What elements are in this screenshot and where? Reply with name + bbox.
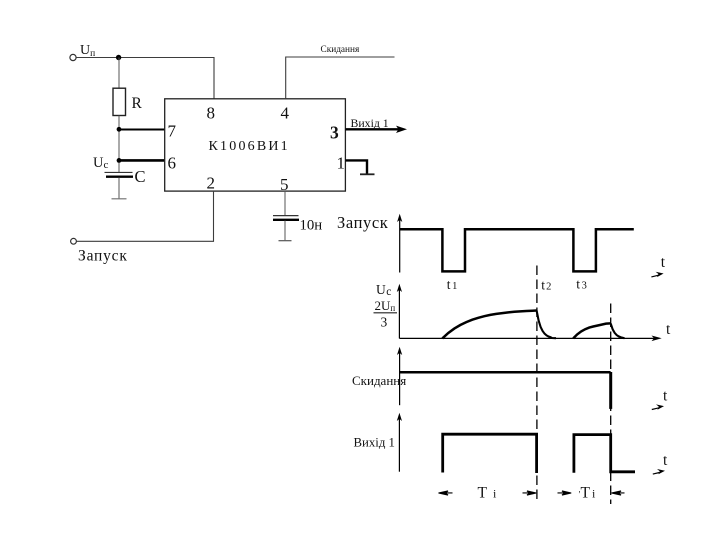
Uc curve 1 fall bbox=[537, 311, 556, 339]
dashed line 2 bbox=[610, 304, 612, 505]
W4 pulse 2 and tail bbox=[574, 435, 635, 473]
node junction dot pin6 bbox=[117, 158, 122, 163]
W4 small axis arrow bbox=[653, 469, 665, 474]
svg-text:t: t bbox=[666, 321, 671, 338]
axis Uc horizontal bbox=[399, 337, 657, 339]
svg-text:Uп: Uп bbox=[80, 43, 95, 59]
terminal Un bbox=[70, 54, 76, 60]
svg-text:t3: t3 bbox=[576, 277, 587, 292]
wire pin5 down bbox=[284, 191, 286, 215]
svg-text:Скидання: Скидання bbox=[321, 45, 361, 55]
capacitor 10n plate bottom bbox=[273, 219, 299, 221]
wire pin4 reset bbox=[286, 57, 395, 99]
svg-text:t: t bbox=[663, 387, 668, 404]
axis W4 Vyhid bbox=[398, 416, 400, 472]
wire junction down to R bbox=[118, 58, 120, 89]
svg-text:Скидання: Скидання bbox=[352, 373, 406, 388]
svg-text:Тi: Тi bbox=[478, 485, 503, 502]
svg-text:5: 5 bbox=[280, 175, 289, 194]
W1 small axis arrow bbox=[651, 272, 663, 277]
capacitor 10n plate top bbox=[273, 215, 299, 217]
svg-text:4: 4 bbox=[281, 104, 290, 123]
svg-text:Запуск: Запуск bbox=[337, 213, 389, 232]
ground bar bbox=[360, 173, 375, 175]
svg-text:Uc: Uc bbox=[376, 282, 391, 298]
svg-text:2Uп: 2Uп bbox=[375, 298, 396, 313]
svg-text:3: 3 bbox=[381, 315, 388, 330]
axis Uc vertical bbox=[398, 287, 400, 338]
svg-text:7: 7 bbox=[168, 122, 177, 141]
Ti dimension arrow right to bar bbox=[523, 491, 537, 495]
svg-text:Вихід 1: Вихід 1 bbox=[351, 116, 389, 130]
svg-text:t1: t1 bbox=[447, 277, 458, 292]
svg-text:8: 8 bbox=[207, 104, 216, 123]
Ti2 dimension arrow from bar bbox=[612, 491, 625, 495]
wire 10n down bbox=[284, 221, 286, 241]
end bar below 10n bbox=[279, 240, 292, 242]
op IC box K1006VI1 bbox=[165, 99, 346, 191]
wire Un to pin8 bbox=[76, 58, 214, 100]
Ti2 dimension arrow into start bbox=[558, 491, 572, 495]
axis W1 Zapusk bbox=[399, 217, 401, 273]
Uc curve 1 rise bbox=[442, 311, 536, 339]
svg-text:1: 1 bbox=[337, 154, 346, 173]
wire C down bbox=[118, 178, 120, 199]
Ti dimension arrow left bbox=[439, 491, 453, 495]
wire to pin 6 bbox=[119, 159, 165, 162]
svg-text:C: C bbox=[135, 167, 146, 186]
W3 small axis arrow bbox=[652, 404, 664, 409]
svg-text:К1006ВИ1: К1006ВИ1 bbox=[209, 139, 290, 154]
svg-text:′Тi: ′Тi bbox=[579, 485, 596, 502]
wire pin3 output with arrow bbox=[345, 128, 402, 130]
svg-text:R: R bbox=[132, 95, 143, 112]
svg-text:10н: 10н bbox=[300, 218, 323, 234]
W1 signal trace bbox=[400, 229, 634, 271]
svg-text:2: 2 bbox=[207, 174, 216, 193]
svg-text:t: t bbox=[663, 452, 668, 469]
node junction dot top bbox=[116, 55, 121, 60]
node junction dot pin7 bbox=[117, 127, 122, 132]
wire to pin 7 bbox=[119, 129, 165, 131]
svg-text:t2: t2 bbox=[541, 277, 551, 292]
end bar below C bbox=[112, 198, 127, 200]
arrowhead output bbox=[396, 126, 407, 133]
Uc curve 2 rise bbox=[573, 323, 610, 338]
svg-text:Uc: Uc bbox=[93, 155, 108, 171]
svg-text:t: t bbox=[661, 254, 666, 271]
capacitor C plate bottom bbox=[106, 175, 133, 177]
wire R down bbox=[118, 116, 120, 173]
wire pin2 to trigger terminal bbox=[77, 191, 214, 241]
dashed line t2 bbox=[536, 266, 538, 504]
axis W3 Skydannia bbox=[399, 350, 401, 405]
svg-text:3: 3 bbox=[330, 123, 339, 143]
fraction bar bbox=[374, 312, 398, 314]
svg-text:Запуск: Запуск bbox=[78, 248, 128, 265]
wire pin1 to ground bbox=[345, 160, 367, 173]
W3 signal trace bbox=[400, 371, 611, 374]
svg-text:6: 6 bbox=[168, 154, 177, 173]
capacitor C plate top bbox=[105, 171, 133, 173]
svg-text:Вихід 1: Вихід 1 bbox=[354, 436, 395, 450]
terminal Zapusk bbox=[71, 238, 77, 244]
W4 pulse 1 bbox=[443, 434, 537, 473]
Uc curve 2 fall bbox=[611, 324, 625, 339]
resistor R bbox=[113, 88, 126, 115]
